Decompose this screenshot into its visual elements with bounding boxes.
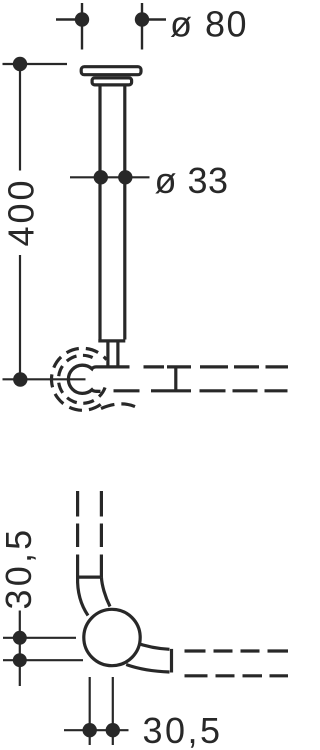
rail bottom dashes bbox=[114, 389, 288, 392]
400 dimension bottom line bbox=[3, 378, 86, 380]
ø33 dot left bbox=[94, 170, 108, 184]
plan right rail top wall bbox=[135, 643, 170, 650]
rail elbow C (front view) bbox=[68, 365, 129, 393]
plan right rail top dashes bbox=[185, 649, 289, 652]
left 30,5 dot upper bbox=[13, 631, 27, 645]
svg-text:30,5: 30,5 bbox=[143, 710, 223, 750]
swivel dashed ring inner bbox=[58, 355, 105, 403]
plan rail right wall dashes bbox=[100, 491, 103, 577]
svg-text:ø 33: ø 33 bbox=[155, 160, 229, 201]
tube right wall bbox=[123, 86, 126, 340]
rail top dashes bbox=[144, 365, 289, 368]
plan right rail bottom dashes bbox=[185, 674, 289, 677]
svg-text:ø 80: ø 80 bbox=[170, 4, 248, 45]
400 dimension vertical line upper segment bbox=[19, 64, 21, 171]
dimension marker M1 (ø80 left) bbox=[56, 3, 89, 50]
plan right rail bottom wall bbox=[126, 665, 169, 673]
ceiling flange plate bbox=[81, 67, 141, 75]
left 30,5 vertical line bbox=[19, 611, 21, 687]
plan rail left wall dashes bbox=[76, 491, 79, 577]
svg-text:30,5: 30,5 bbox=[0, 527, 39, 610]
400 dimension top line bbox=[3, 63, 68, 65]
plan tube circle bbox=[84, 609, 140, 665]
ø33 dot right bbox=[118, 170, 132, 184]
left 30,5 line upper bbox=[3, 637, 76, 639]
bottom 30,5 callout line left bbox=[89, 677, 91, 745]
swivel dashed arc lower right bbox=[101, 404, 138, 409]
bottom 30,5 dimension line bbox=[64, 729, 129, 731]
left 30,5 line lower bbox=[3, 659, 83, 661]
400 dimension bottom dot bbox=[13, 372, 27, 386]
400 dimension vertical line lower segment bbox=[19, 255, 21, 380]
joint stem left wall bbox=[106, 343, 109, 367]
bottom 30,5 dot left bbox=[83, 723, 97, 737]
swivel dashed ring outer bbox=[52, 348, 107, 410]
plan right rail end cap bbox=[170, 649, 173, 673]
400 dimension top dot bbox=[13, 57, 27, 71]
bottom 30,5 callout line right bbox=[112, 677, 114, 745]
tube left wall bbox=[98, 86, 101, 340]
ceiling flange tier 2 bbox=[92, 78, 132, 85]
joint stem right wall bbox=[116, 343, 119, 367]
left 30,5 dot lower bbox=[13, 653, 27, 667]
rail connector I bbox=[174, 367, 177, 391]
ø33 dimension line bbox=[70, 176, 150, 178]
plan rail right wall curve into elbow bbox=[101, 577, 110, 606]
tube end cap bbox=[98, 339, 125, 342]
dimension marker M2 (ø80 right) bbox=[135, 3, 166, 50]
svg-text:400: 400 bbox=[1, 177, 42, 246]
bottom 30,5 dot right bbox=[106, 723, 120, 737]
plan rail left wall curve into elbow bbox=[78, 577, 88, 615]
plan rail connector cap bbox=[76, 575, 101, 578]
